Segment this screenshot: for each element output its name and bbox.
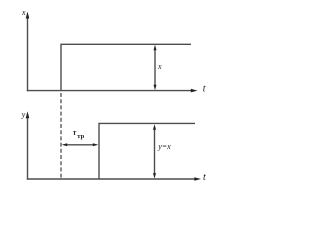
svg-text:t: t — [203, 84, 206, 95]
svg-text:t: t — [203, 172, 206, 183]
svg-text:y=x: y=x — [157, 142, 171, 151]
svg-text:x: x — [21, 8, 26, 17]
svg-text:y: y — [21, 110, 26, 119]
svg-text:x: x — [157, 62, 162, 71]
svg-text:тр: тр — [77, 133, 84, 140]
svg-text:τ: τ — [73, 128, 77, 137]
